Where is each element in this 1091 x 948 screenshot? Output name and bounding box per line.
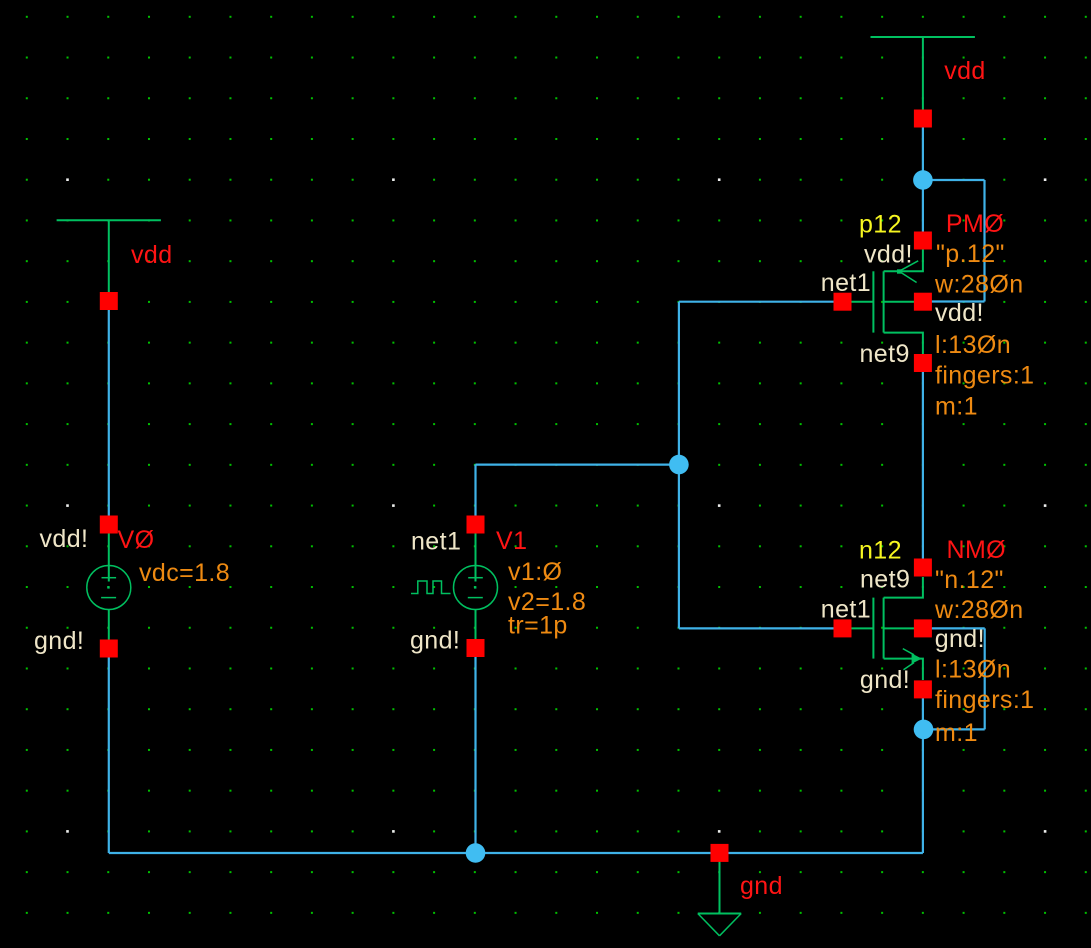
svg-text:v1:Ø: v1:Ø [508,558,562,586]
svg-text:"p.12": "p.12" [936,240,1005,268]
svg-text:vdd: vdd [944,57,986,85]
svg-text:gnd!: gnd! [410,627,460,655]
svg-text:PMØ: PMØ [946,210,1004,238]
svg-text:vdd!: vdd! [864,241,913,269]
svg-text:net1: net1 [821,269,871,297]
svg-text:vdd: vdd [131,241,173,269]
svg-text:fingers:1: fingers:1 [935,362,1035,390]
svg-text:w:28Øn: w:28Øn [934,271,1024,299]
svg-text:gnd!: gnd! [935,625,985,653]
svg-text:p12: p12 [859,211,902,239]
svg-text:net1: net1 [821,596,871,624]
svg-text:l:13Øn: l:13Øn [935,331,1011,359]
svg-text:gnd: gnd [740,872,783,900]
svg-text:m:1: m:1 [935,719,978,747]
svg-text:"n.12": "n.12" [935,566,1004,594]
svg-text:w:28Øn: w:28Øn [934,596,1024,624]
svg-text:gnd!: gnd! [860,666,910,694]
svg-text:tr=1p: tr=1p [508,612,568,640]
svg-text:net9: net9 [860,340,910,368]
svg-text:n12: n12 [859,537,902,565]
svg-text:NMØ: NMØ [947,536,1007,564]
svg-text:l:13Øn: l:13Øn [935,656,1011,684]
svg-text:vdd!: vdd! [40,525,89,553]
svg-text:net9: net9 [860,566,910,594]
svg-text:vdd!: vdd! [935,299,984,327]
svg-text:VØ: VØ [118,526,155,554]
svg-text:vdc=1.8: vdc=1.8 [139,559,230,587]
svg-text:gnd!: gnd! [34,627,84,655]
svg-text:m:1: m:1 [935,393,978,421]
svg-text:fingers:1: fingers:1 [935,686,1035,714]
svg-text:net1: net1 [411,528,461,556]
svg-text:V1: V1 [496,527,527,555]
